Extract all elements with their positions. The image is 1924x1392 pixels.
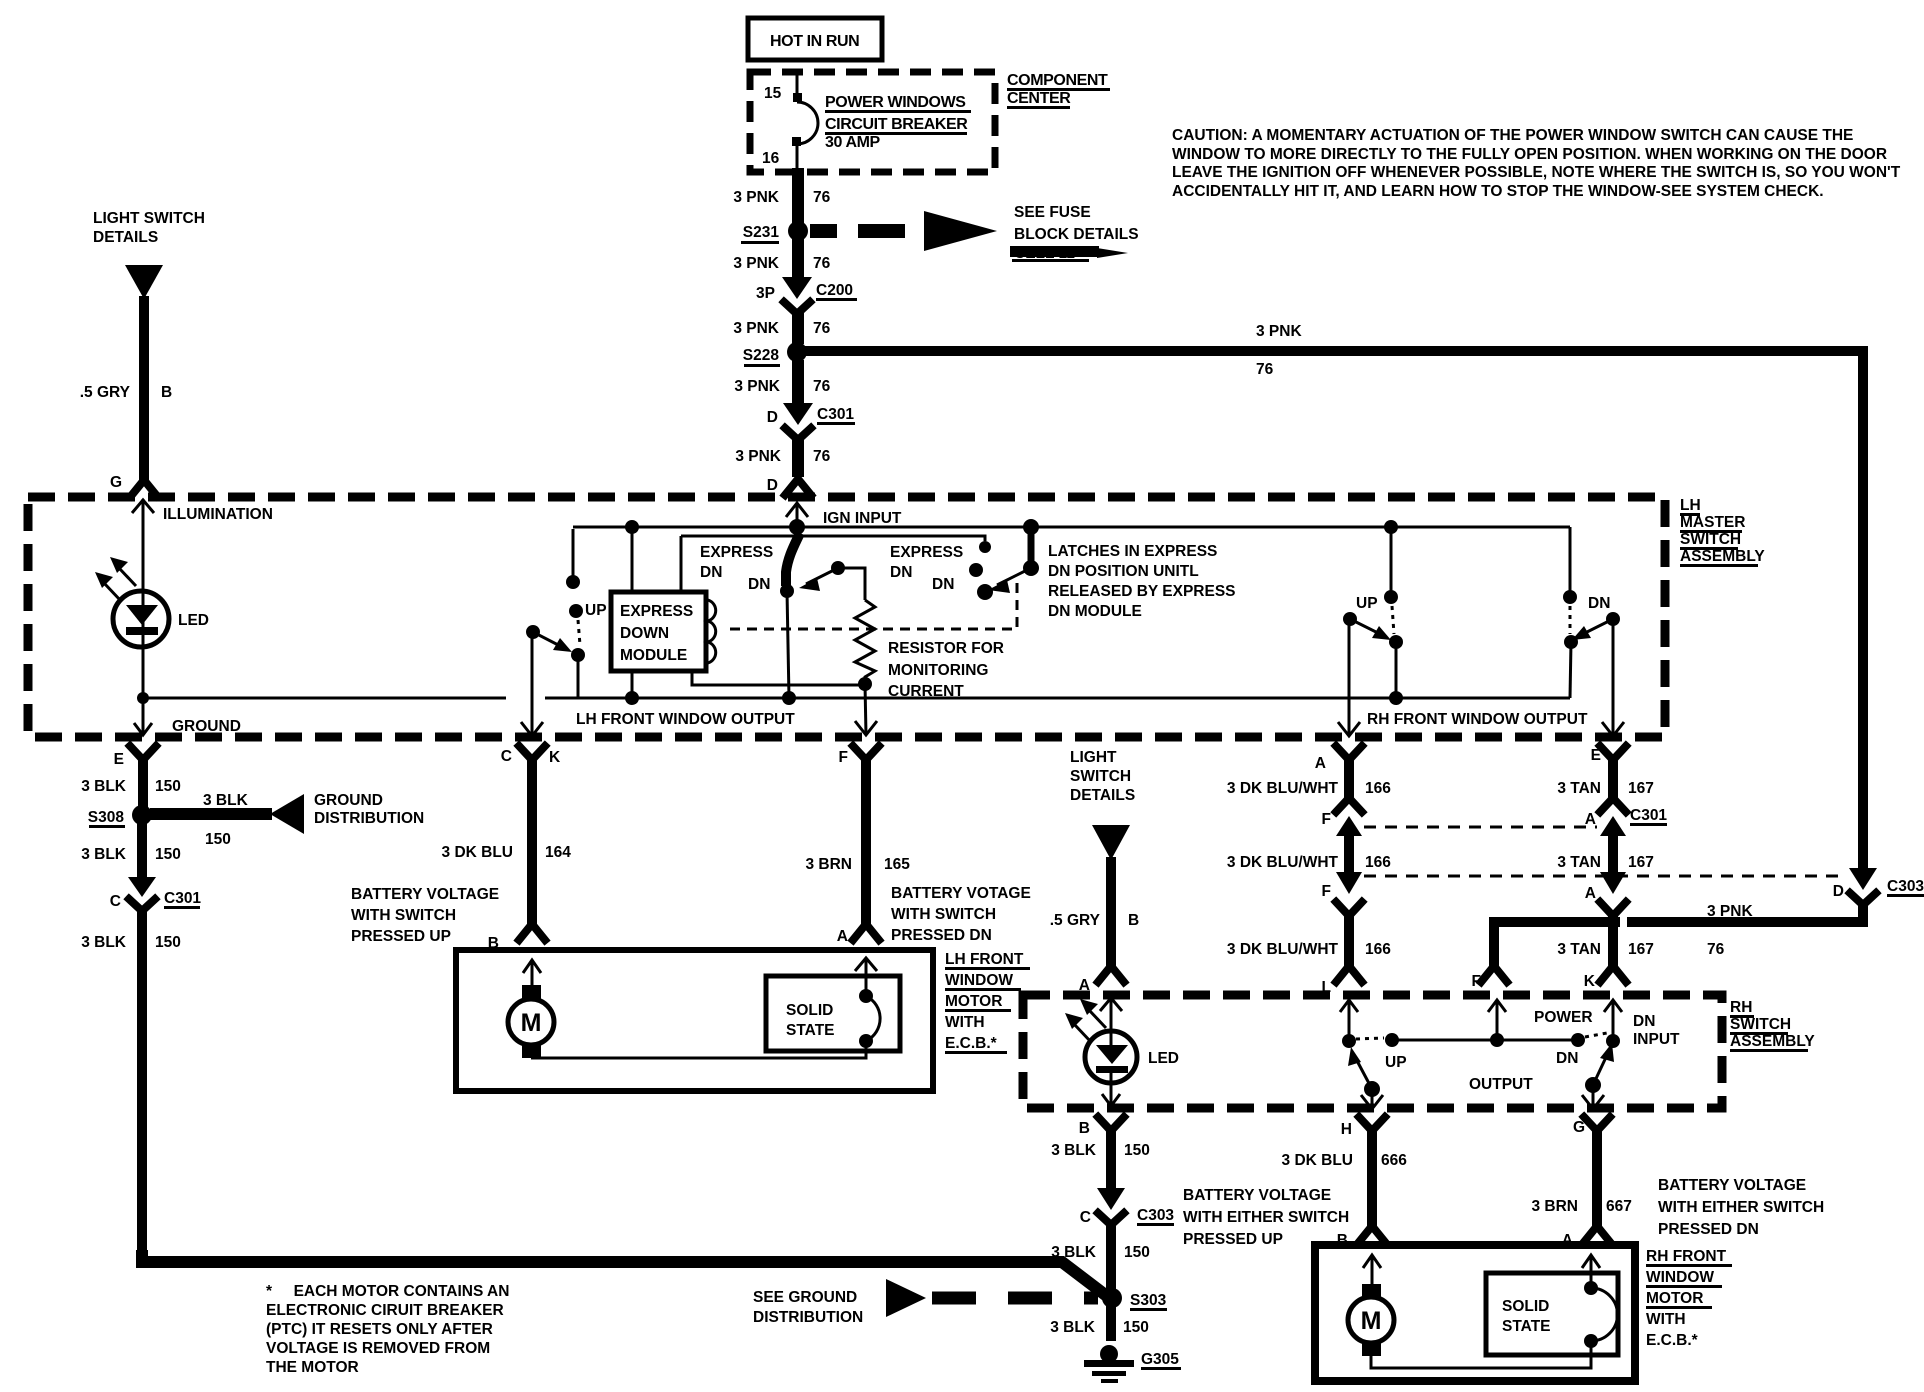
svg-text:3 BRN: 3 BRN (805, 856, 852, 873)
rh led ground arrow pin B (1102, 1069, 1120, 1106)
svg-text:B: B (161, 384, 172, 401)
master switch pin G entry (110, 474, 157, 496)
svg-text:C303: C303 (1137, 1207, 1174, 1224)
svg-text:.5 GRY: .5 GRY (1050, 912, 1101, 929)
LH window motor M (508, 985, 554, 1058)
svg-text:IGN INPUT: IGN INPUT (823, 510, 902, 527)
svg-text:G305: G305 (1141, 1351, 1179, 1368)
ground G305 (1084, 1345, 1181, 1383)
svg-text:C200: C200 (816, 282, 853, 299)
connector C301 pass-through A (tan) (1557, 807, 1667, 894)
illumination input arrow (132, 500, 273, 523)
COMPONENT CENTER label (1007, 72, 1110, 109)
ign input bus (573, 519, 1570, 535)
svg-text:E: E (114, 751, 124, 768)
svg-text:C301: C301 (1630, 807, 1667, 824)
svg-text:LH FRONT: LH FRONT (945, 951, 1024, 968)
RH front window motor box (1315, 1245, 1635, 1381)
splice S308 (88, 805, 152, 828)
svg-text:DN: DN (1588, 595, 1610, 612)
wire 3 PNK 76 branch to right door (803, 323, 1868, 872)
svg-text:STATE: STATE (1502, 1318, 1551, 1335)
svg-text:THE MOTOR: THE MOTOR (266, 1359, 359, 1376)
RH solid state box (1486, 1273, 1618, 1355)
svg-text:RH FRONT WINDOW OUTPUT: RH FRONT WINDOW OUTPUT (1367, 711, 1588, 728)
wire 3 DK BLU 164 to LH motor (442, 757, 572, 940)
svg-text:M: M (521, 1009, 542, 1037)
master RH-up switch (1338, 520, 1403, 736)
svg-text:DN: DN (748, 576, 770, 593)
RH motor return link (1371, 1341, 1591, 1368)
connector C301 pin D (767, 403, 855, 440)
RH motor pin B arrow (1363, 1255, 1381, 1286)
svg-text:.5 GRY: .5 GRY (80, 384, 131, 401)
svg-text:DOWN: DOWN (620, 625, 669, 642)
svg-text:3 BLK: 3 BLK (1051, 1142, 1097, 1159)
svg-text:ELECTRONIC CIRUIT BREAKER: ELECTRONIC CIRUIT BREAKER (266, 1302, 504, 1319)
svg-text:A: A (837, 928, 848, 945)
svg-text:C301: C301 (817, 406, 854, 423)
svg-text:SWITCH: SWITCH (1680, 531, 1741, 548)
svg-text:BATTERY VOLTAGE: BATTERY VOLTAGE (1183, 1187, 1331, 1204)
svg-text:D: D (767, 477, 778, 494)
master RH-dn switch (1563, 527, 1624, 736)
motor e.c.b. footnote (266, 1283, 509, 1376)
LH front window output label (576, 711, 795, 728)
battery voltage either switch dn note (1658, 1177, 1824, 1238)
svg-text:A: A (1585, 811, 1596, 828)
svg-text:DISTRIBUTION: DISTRIBUTION (753, 1309, 863, 1326)
svg-text:3 BLK: 3 BLK (1051, 1244, 1097, 1261)
wire 3 BLK 150 C303 to S303 (1051, 1223, 1150, 1292)
LH MASTER SWITCH ASSEMBLY label (1680, 497, 1765, 567)
wire .5 GRY B light switch to master pin G (80, 296, 172, 481)
svg-text:VOLTAGE IS REMOVED FROM: VOLTAGE IS REMOVED FROM (266, 1340, 490, 1357)
resistor for monitoring current (855, 600, 1004, 700)
svg-text:LED: LED (178, 612, 209, 629)
svg-text:H: H (1341, 1121, 1352, 1138)
ign input arrow pin D (786, 503, 902, 527)
RH solid state e.c.b. contact arc (1582, 1255, 1618, 1348)
RH window motor M (1348, 1284, 1394, 1356)
rh switch pin F power input arrow (1488, 1000, 1506, 1038)
svg-text:PRESSED DN: PRESSED DN (891, 927, 992, 944)
svg-text:LIGHT: LIGHT (1070, 749, 1117, 766)
wire 3 BLK 150 ground run to S303 (81, 910, 1108, 1297)
svg-text:MOTOR: MOTOR (1646, 1290, 1703, 1307)
svg-text:LEAVE THE IGNITION OFF WHENEVE: LEAVE THE IGNITION OFF WHENEVER POSSIBLE… (1172, 164, 1901, 181)
svg-text:A: A (1585, 885, 1596, 902)
svg-text:D: D (1833, 883, 1844, 900)
svg-text:K: K (549, 749, 561, 766)
LED indicator (rh switch) (1065, 999, 1179, 1083)
svg-text:3 DK BLU/WHT: 3 DK BLU/WHT (1227, 854, 1339, 871)
svg-text:BATTERY VOLTAGE: BATTERY VOLTAGE (351, 886, 499, 903)
svg-text:76: 76 (813, 378, 831, 395)
ground wire 3 BLK 150 pin E to S308 (81, 746, 181, 808)
svg-text:3 BLK: 3 BLK (203, 792, 249, 809)
svg-text:EXPRESS: EXPRESS (700, 544, 773, 561)
splice S228 (743, 342, 807, 367)
LH window dn output to pin F (855, 684, 877, 735)
svg-text:WITH EITHER SWITCH: WITH EITHER SWITCH (1183, 1209, 1349, 1226)
svg-text:STATE: STATE (786, 1022, 835, 1039)
svg-text:GROUND: GROUND (314, 792, 383, 809)
svg-text:DN: DN (1633, 1013, 1655, 1030)
svg-text:UP: UP (1385, 1054, 1407, 1071)
svg-text:K: K (1584, 973, 1596, 990)
component center dashed box (750, 72, 995, 172)
svg-text:ASSEMBLY: ASSEMBLY (1680, 548, 1765, 565)
svg-text:165: 165 (884, 856, 910, 873)
rh up switch lever (1348, 1047, 1383, 1109)
svg-text:3 PNK: 3 PNK (733, 189, 779, 206)
LH up switch lever to pin K (521, 625, 572, 736)
svg-text:DN POSITION UNITL: DN POSITION UNITL (1048, 563, 1199, 580)
wire 3 PNK 76 S231 to C200 (733, 239, 830, 278)
svg-text:HOT IN RUN: HOT IN RUN (770, 33, 859, 50)
rh dn switch lever (1582, 1043, 1614, 1109)
svg-text:3 BRN: 3 BRN (1531, 1198, 1578, 1215)
rh switch power bus (1356, 1009, 1607, 1093)
wire 3 DK BLU/WHT 166 segment 2 to rh switch L (1227, 883, 1391, 996)
svg-text:EXPRESS: EXPRESS (890, 544, 963, 561)
svg-text:WITH: WITH (945, 1014, 985, 1031)
svg-text:LH: LH (1680, 497, 1701, 514)
LED indicator (master) (95, 557, 209, 647)
svg-text:CURRENT: CURRENT (888, 683, 964, 700)
svg-text:M: M (1361, 1307, 1382, 1335)
svg-text:15: 15 (764, 85, 782, 102)
RH switch assembly dashed box (1023, 995, 1722, 1108)
svg-text:RH FRONT: RH FRONT (1646, 1248, 1727, 1265)
svg-text:3 DK BLU: 3 DK BLU (1282, 1152, 1353, 1169)
svg-text:G: G (110, 474, 122, 491)
svg-text:WITH: WITH (1646, 1311, 1686, 1328)
ground output arrow pin E (134, 698, 241, 735)
svg-text:16: 16 (762, 150, 780, 167)
wire 3 BRN 165 to LH motor (805, 757, 910, 940)
svg-text:SWITCH: SWITCH (1070, 768, 1131, 785)
svg-text:76: 76 (813, 448, 831, 465)
svg-text:76: 76 (813, 320, 831, 337)
svg-text:EXPRESS: EXPRESS (620, 603, 693, 620)
svg-text:LH FRONT WINDOW OUTPUT: LH FRONT WINDOW OUTPUT (576, 711, 795, 728)
svg-text:3 BLK: 3 BLK (81, 778, 127, 795)
svg-text:E.C.B.*: E.C.B.* (1646, 1332, 1699, 1349)
svg-text:B: B (488, 935, 499, 952)
svg-text:3 DK BLU/WHT: 3 DK BLU/WHT (1227, 780, 1339, 797)
svg-text:ILLUMINATION: ILLUMINATION (163, 506, 273, 523)
svg-text:RELEASED BY EXPRESS: RELEASED BY EXPRESS (1048, 583, 1236, 600)
svg-text:F: F (1322, 883, 1331, 900)
rh switch pin L input arrow (1340, 1000, 1358, 1048)
caution note text (1172, 127, 1901, 200)
wire .5 GRY B to rh switch pin A (1050, 857, 1139, 994)
svg-text:CENTER: CENTER (1007, 90, 1071, 107)
svg-text:BATTERY VOTAGE: BATTERY VOTAGE (891, 885, 1031, 902)
svg-text:DN: DN (932, 576, 954, 593)
svg-text:C: C (501, 748, 512, 765)
svg-text:SOLID: SOLID (1502, 1298, 1549, 1315)
ground output bus inside master (137, 692, 1570, 704)
svg-text:B: B (1128, 912, 1139, 929)
svg-text:76: 76 (813, 255, 831, 272)
svg-text:S228: S228 (743, 347, 780, 364)
svg-text:150: 150 (1124, 1244, 1150, 1261)
svg-text:167: 167 (1628, 780, 1654, 797)
svg-text:150: 150 (1124, 1142, 1150, 1159)
HOT IN RUN feed box (748, 18, 882, 60)
wire 3 DK BLU 666 to rh motor (1282, 1117, 1408, 1249)
splice S231 (741, 221, 808, 244)
LH solid state e.c.b. contact arc (855, 958, 880, 1048)
LH master switch assembly dashed box (28, 497, 1665, 737)
wire 3 PNK 76 C200 to S228 (733, 312, 830, 344)
LH window switch lever (curved) (780, 533, 800, 705)
svg-text:INPUT: INPUT (1633, 1031, 1680, 1048)
battery voltage either switch up note (1183, 1187, 1349, 1248)
svg-text:DN: DN (1556, 1050, 1578, 1067)
svg-text:164: 164 (545, 844, 571, 861)
svg-text:3 TAN: 3 TAN (1557, 941, 1601, 958)
svg-text:PRESSED DN: PRESSED DN (1658, 1221, 1759, 1238)
svg-text:WITH EITHER SWITCH: WITH EITHER SWITCH (1658, 1199, 1824, 1216)
wire 3 BLK 150 S303 to ground (1050, 1306, 1149, 1341)
svg-text:167: 167 (1628, 854, 1654, 871)
svg-text:ACCIDENTALLY HIT IT, AND LEARN: ACCIDENTALLY HIT IT, AND LEARN HOW TO ST… (1172, 183, 1824, 200)
LH motor label (945, 951, 1030, 1054)
svg-text:RESISTOR FOR: RESISTOR FOR (888, 640, 1004, 657)
svg-text:3 BLK: 3 BLK (81, 934, 127, 951)
connector C301 pin C (110, 877, 202, 911)
svg-text:D: D (767, 409, 778, 426)
LH up switch contact chain (566, 529, 607, 698)
svg-text:DN MODULE: DN MODULE (1048, 603, 1142, 620)
svg-text:3 PNK: 3 PNK (734, 378, 780, 395)
svg-text:3 PNK: 3 PNK (733, 320, 779, 337)
svg-text:CAUTION: A MOMENTARY ACTUATION: CAUTION: A MOMENTARY ACTUATION OF THE PO… (1172, 127, 1853, 144)
svg-text:GROUND: GROUND (172, 718, 241, 735)
svg-text:RH: RH (1730, 999, 1752, 1016)
svg-text:76: 76 (1256, 361, 1274, 378)
svg-text:E.C.B.*: E.C.B.* (945, 1035, 998, 1052)
svg-text:DN: DN (700, 564, 722, 581)
wire 3 TAN 167 segment 1 (1557, 757, 1654, 812)
svg-text:SOLID: SOLID (786, 1002, 833, 1019)
svg-text:3 BLK: 3 BLK (81, 846, 127, 863)
LH front window motor box (456, 928, 933, 1091)
svg-text:DISTRIBUTION: DISTRIBUTION (314, 810, 424, 827)
svg-text:WITH SWITCH: WITH SWITCH (891, 906, 996, 923)
svg-text:COMPONENT: COMPONENT (1007, 72, 1108, 89)
svg-text:LED: LED (1148, 1050, 1179, 1067)
LH dn contact with arrow (799, 561, 865, 600)
svg-text:30 AMP: 30 AMP (825, 134, 881, 151)
latch note text (1048, 543, 1236, 620)
light switch feed triangle (left) (125, 265, 163, 299)
wire 3 PNK 76 to rh switch F (1472, 903, 1863, 990)
svg-text:POWER WINDOWS: POWER WINDOWS (825, 94, 966, 111)
svg-text:150: 150 (1123, 1319, 1149, 1336)
svg-text:B: B (1079, 1120, 1090, 1137)
battery votage pressed dn note (891, 885, 1031, 944)
connector C303 pin D (3 PNK) (1833, 868, 1924, 905)
svg-text:3 TAN: 3 TAN (1557, 854, 1601, 871)
svg-text:CIRCUIT BREAKER: CIRCUIT BREAKER (825, 116, 968, 133)
SEE FUSE BLOCK DETAILS CELL note (1010, 204, 1139, 262)
rh switch pin A illumination arrow (1100, 998, 1122, 1032)
connector E master rh-dn output (1591, 746, 1626, 764)
wire 3 BRN 667 to rh motor (1531, 1117, 1631, 1249)
svg-text:MONITORING: MONITORING (888, 662, 988, 679)
wire illumination to LED (142, 499, 145, 698)
svg-text:UP: UP (585, 602, 607, 619)
LH switch labels EXPRESS DN / DN (700, 544, 773, 593)
svg-text:3 PNK: 3 PNK (1707, 903, 1753, 920)
light switch details label (middle) (1070, 749, 1135, 804)
RH SWITCH ASSEMBLY label (1730, 999, 1815, 1052)
svg-text:S231: S231 (743, 224, 780, 241)
mechanical latch dashed link (730, 580, 1017, 629)
breaker label POWER WINDOWS CIRCUIT BREAKER 30 AMP (825, 94, 971, 151)
svg-text:167: 167 (1628, 941, 1654, 958)
connector C301 pass-through F (dk blu) (1227, 811, 1845, 894)
module pins to output bus (625, 671, 865, 705)
svg-text:76: 76 (813, 189, 831, 206)
svg-text:DN: DN (890, 564, 912, 581)
svg-text:3 TAN: 3 TAN (1557, 780, 1601, 797)
svg-text:UP: UP (1356, 595, 1378, 612)
svg-text:DETAILS: DETAILS (93, 229, 158, 246)
LH motor return link (531, 1041, 866, 1058)
svg-text:WINDOW: WINDOW (945, 972, 1013, 989)
dashed arrow to fuse block details (810, 211, 997, 251)
svg-text:SEE FUSE: SEE FUSE (1014, 204, 1091, 221)
svg-text:666: 666 (1381, 1152, 1407, 1169)
svg-text:POWER: POWER (1534, 1009, 1593, 1026)
svg-text:150: 150 (155, 934, 181, 951)
svg-text:LIGHT SWITCH: LIGHT SWITCH (93, 210, 205, 227)
svg-text:C: C (1080, 1209, 1091, 1226)
svg-text:166: 166 (1365, 941, 1391, 958)
svg-text:SEE GROUND: SEE GROUND (753, 1289, 857, 1306)
svg-text:150: 150 (155, 778, 181, 795)
svg-text:3 PNK: 3 PNK (733, 255, 779, 272)
connector C200 (756, 277, 857, 314)
svg-text:F: F (1472, 973, 1481, 990)
wire 3 TAN 167 segment 2 to rh switch K (1557, 885, 1654, 990)
svg-text:F: F (839, 749, 848, 766)
svg-text:F: F (1322, 811, 1331, 828)
svg-text:WINDOW: WINDOW (1646, 1269, 1714, 1286)
svg-text:PRESSED UP: PRESSED UP (351, 928, 451, 945)
svg-text:150: 150 (155, 846, 181, 863)
svg-text:DETAILS: DETAILS (1070, 787, 1135, 804)
svg-text:C303: C303 (1887, 878, 1924, 895)
light switch details label (left) (93, 210, 205, 246)
svg-text:C301: C301 (164, 890, 201, 907)
wire 3 DK BLU/WHT 166 segment 1 (1227, 757, 1391, 812)
wire 3 PNK 76 S228 to C301 (734, 360, 830, 404)
svg-text:MASTER: MASTER (1680, 514, 1745, 531)
svg-text:3P: 3P (756, 285, 775, 302)
circuit breaker 30A symbol (792, 72, 818, 170)
svg-text:150: 150 (205, 831, 231, 848)
splice S303 (1102, 1288, 1167, 1311)
svg-text:BLOCK DETAILS: BLOCK DETAILS (1014, 226, 1139, 243)
wire 3 PNK 76 breaker to S231 (733, 168, 830, 223)
svg-text:WINDOW TO MORE DIRECTLY TO THE: WINDOW TO MORE DIRECTLY TO THE FULLY OPE… (1172, 146, 1887, 163)
wire 3 PNK 76 C301 to master switch (735, 438, 830, 477)
svg-text:MODULE: MODULE (620, 647, 687, 664)
battery voltage pressed up note (351, 886, 499, 945)
svg-text:A: A (1315, 755, 1326, 772)
svg-text:166: 166 (1365, 854, 1391, 871)
svg-text:S303: S303 (1130, 1292, 1167, 1309)
svg-text:WITH SWITCH: WITH SWITCH (351, 907, 456, 924)
light switch feed triangle (middle) (1092, 825, 1130, 860)
svg-text:OUTPUT: OUTPUT (1469, 1076, 1533, 1093)
LH solid state box (766, 976, 900, 1051)
wire 3 BLK 150 S308 to C301 (81, 822, 181, 878)
connector C303 pin C (1080, 1188, 1175, 1226)
svg-text:* EACH MOTOR CONTAINS AN: * EACH MOTOR CONTAINS AN (266, 1283, 509, 1300)
RH motor label (1646, 1248, 1732, 1349)
svg-text:3 BLK: 3 BLK (1050, 1319, 1096, 1336)
svg-text:LATCHES IN EXPRESS: LATCHES IN EXPRESS (1048, 543, 1217, 560)
express down module box (611, 592, 716, 671)
svg-text:667: 667 (1606, 1198, 1632, 1215)
connector C K master output (501, 746, 561, 766)
svg-text:3 PNK: 3 PNK (1256, 323, 1302, 340)
master switch pin D entry (767, 477, 811, 495)
svg-text:SWITCH: SWITCH (1730, 1016, 1791, 1033)
svg-text:BATTERY VOLTAGE: BATTERY VOLTAGE (1658, 1177, 1806, 1194)
svg-text:76: 76 (1707, 941, 1725, 958)
LH motor pin B arrow (523, 960, 541, 988)
svg-text:ASSEMBLY: ASSEMBLY (1730, 1033, 1815, 1050)
svg-text:MOTOR: MOTOR (945, 993, 1002, 1010)
svg-text:3 DK BLU: 3 DK BLU (442, 844, 513, 861)
svg-text:3 DK BLU/WHT: 3 DK BLU/WHT (1227, 941, 1339, 958)
svg-text:S308: S308 (88, 809, 125, 826)
svg-text:3 PNK: 3 PNK (735, 448, 781, 465)
svg-text:(PTC) IT RESETS ONLY AFTER: (PTC) IT RESETS ONLY AFTER (266, 1321, 493, 1338)
express down module feed line (632, 527, 985, 592)
RH express switch on master (890, 519, 1039, 600)
wire 3 BLK 150 rh led to C303 (1051, 1117, 1150, 1190)
wire 3 BLK 150 to ground distribution (150, 792, 424, 848)
connector F master dn output (839, 746, 879, 766)
see ground distribution dashed arrow (753, 1279, 1098, 1326)
rh switch pin K dn input arrow (1604, 1000, 1680, 1048)
svg-text:166: 166 (1365, 780, 1391, 797)
svg-text:PRESSED UP: PRESSED UP (1183, 1231, 1283, 1248)
svg-text:C: C (110, 893, 121, 910)
connector A master rh-up output (1315, 746, 1362, 772)
